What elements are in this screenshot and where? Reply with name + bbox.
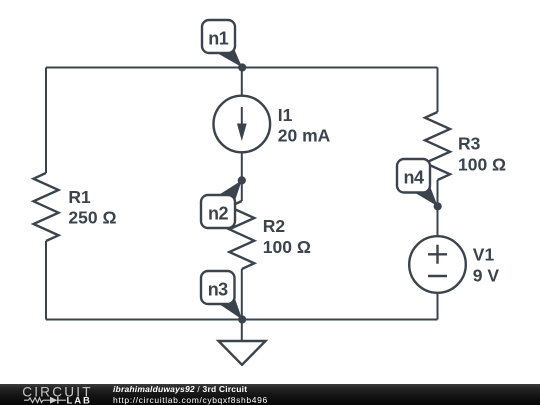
svg-text:n1: n1 [208,29,228,49]
I1 arrowhead [237,124,247,142]
node n1 pointer [217,48,242,68]
CircuitLab logo [18,384,98,405]
footer bar [0,384,540,405]
resistor R1 [34,173,59,241]
svg-text:250 Ω: 250 Ω [68,208,116,228]
logo wire 2 [43,399,50,401]
logo resistor zigzag [29,398,44,403]
node label box n1 [202,20,235,53]
wire ground stub [241,320,243,342]
node n3 pointer [218,297,242,320]
svg-text:100 Ω: 100 Ω [263,237,311,257]
I1 arrow shaft [241,107,243,127]
logo squiggle wire [24,399,29,401]
node label box n3 [201,271,235,304]
V1 plus sign [428,245,447,264]
svg-text:V1: V1 [473,244,495,264]
node label box n2 [201,195,235,228]
footer credits [113,384,268,404]
wire I1 to node n2 [241,152,243,201]
wire right upper [437,68,439,113]
junction dot n4 [434,202,442,210]
svg-text:n2: n2 [208,204,228,224]
current source I1 circle [214,96,271,153]
wire left upper [45,68,47,174]
ground triangle [219,341,266,365]
svg-text:I1: I1 [278,105,293,125]
logo diode [50,397,58,404]
logo wire 3 [58,399,66,401]
svg-text:R3: R3 [458,134,481,154]
svg-text:20 mA: 20 mA [278,126,331,146]
junction dot n1 [238,63,246,71]
resistor R3 [425,112,450,180]
svg-text:R1: R1 [68,187,91,207]
svg-text:100 Ω: 100 Ω [458,155,506,175]
wire bottom [46,319,438,321]
V1 minus sign [428,275,447,277]
svg-text:LAB: LAB [67,395,92,405]
junction dot n2 [238,176,246,184]
voltage source V1 circle [409,236,466,293]
wire middle top [241,68,243,96]
resistor R2 [229,201,254,269]
wire V1 to bottom [437,293,439,320]
node n4 pointer [414,186,438,206]
wire left lower [45,241,47,320]
wire R3 to node n4 [437,180,439,236]
wire R2 to bottom [241,269,243,320]
svg-text:n3: n3 [208,280,228,300]
svg-text:n4: n4 [403,168,423,188]
wire top [46,67,438,69]
junction dot n3 [238,315,246,323]
node label box n4 [397,159,430,193]
logo diode bar [57,397,59,404]
node n2 pointer [217,180,241,200]
svg-text:R2: R2 [263,216,286,236]
svg-text:9 V: 9 V [473,265,500,285]
